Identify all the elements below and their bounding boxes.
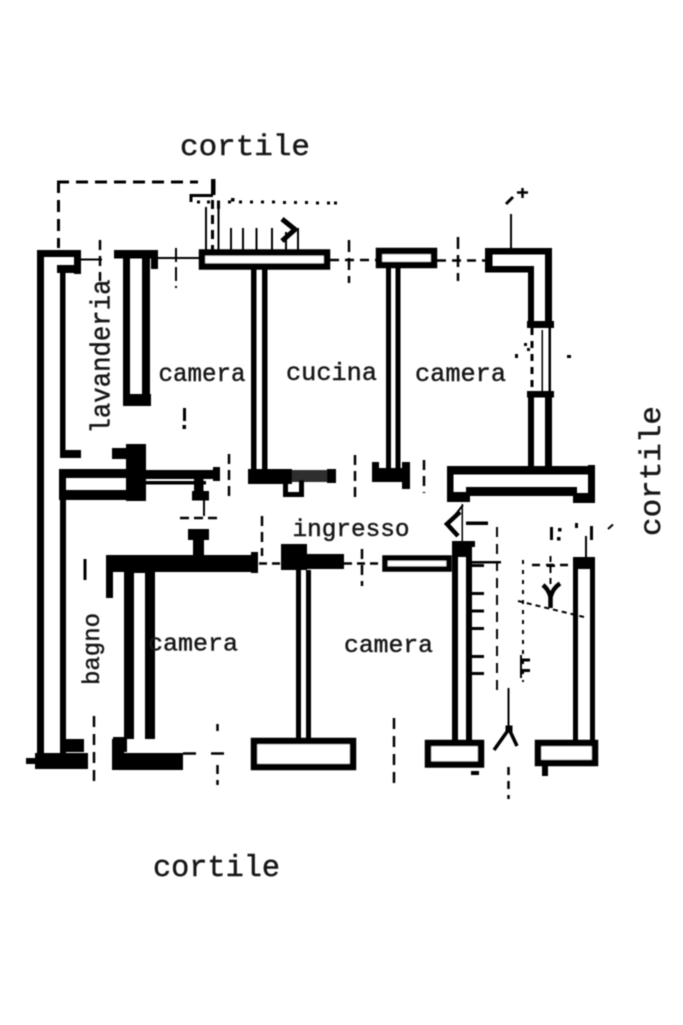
arrow: balcony access chevron xyxy=(282,219,295,241)
wall: left outer wall vertical xyxy=(37,250,44,756)
wall: middle wall right line xyxy=(306,570,311,740)
wall: corridor left cap xyxy=(59,469,66,500)
wall: ingresso north wall thin bottom edge xyxy=(146,481,206,485)
wall: cucina foot right tab down xyxy=(402,480,410,489)
dashed line: boundary vertical to balcony xyxy=(211,200,214,250)
wall: east wing left foot xyxy=(447,492,470,502)
wall: corridor line B xyxy=(59,490,126,500)
wall: stairwell east top cap xyxy=(573,557,595,569)
line: thin jamb line xyxy=(203,497,205,516)
wall: left outer top cap xyxy=(37,250,79,257)
wall: camera2 north bar bottom edge xyxy=(485,266,533,273)
svg-text:cortile: cortile xyxy=(153,851,280,886)
wall: ingresso south-left bar xyxy=(106,555,258,572)
line: axis line down to camera2 bar xyxy=(510,214,512,249)
dots: right of camera2 label xyxy=(524,343,527,346)
dashed line: camera-mid door centerline xyxy=(361,549,364,586)
svg-text:camera: camera xyxy=(344,633,433,660)
wall: camera1 west wall left line xyxy=(123,258,130,395)
wall: camera2 north bar left cap xyxy=(485,248,493,272)
svg-text:lavanderia: lavanderia xyxy=(88,280,119,434)
wall: bar right end cap xyxy=(251,552,258,573)
dash: landing mark xyxy=(590,526,593,540)
jamb: cucina door pocket xyxy=(286,480,302,495)
wall: camera-left west right line xyxy=(145,573,155,739)
wall: camera2 east wall outer upper xyxy=(545,248,552,328)
wall: stairwell east left line xyxy=(573,569,578,740)
wall: camera-mid bottom bar (hollow) xyxy=(254,741,353,767)
wall: east wing right foot xyxy=(573,493,590,503)
window: lavanderia sill line xyxy=(79,259,102,261)
line: landing thin vertical xyxy=(585,536,587,559)
arrow: stairs direction Y xyxy=(543,584,560,609)
line: entrance door centerline xyxy=(462,504,464,546)
wall: camera-left bottom bar xyxy=(112,753,183,770)
svg-text:cortile: cortile xyxy=(636,406,670,536)
wall: entrance corner block xyxy=(452,541,472,557)
wall: east wing left corner vertical xyxy=(447,466,454,501)
wall: corridor line A xyxy=(63,469,126,478)
dotted line: balcony top edge xyxy=(197,201,337,205)
dashed line: corridor door centerline xyxy=(228,454,231,497)
wall: bagno west foot xyxy=(60,739,84,752)
svg-text:bagno: bagno xyxy=(80,613,107,685)
dash-dot: cucina to camera2 opening xyxy=(437,259,485,262)
mark: plus sign top right xyxy=(517,188,528,198)
arrow: entrance arrow tail xyxy=(466,522,488,526)
wall: cucina foot right serif xyxy=(402,462,410,470)
jamb: corridor door stub foot xyxy=(192,491,209,501)
dashed line: cucina window centerline xyxy=(348,240,351,283)
wall: lavanderia partition foot xyxy=(60,450,81,458)
wall: middle wall left line xyxy=(296,570,301,740)
wall: stairwell east bottom bar (hollow) xyxy=(538,743,595,763)
wall: camera-left west junction xyxy=(124,557,155,573)
dashed line: opening centerline x424 xyxy=(423,460,426,493)
wall: ingresso north wall end cap xyxy=(213,467,220,481)
wall: top cap right connector xyxy=(74,250,81,274)
svg-text:camera: camera xyxy=(148,632,238,659)
wall: camera2 east wall inner upper xyxy=(528,266,534,328)
dashed line: lavanderia window centerline xyxy=(99,240,102,281)
wall: camera2 window cap lower xyxy=(527,391,554,398)
wall: stub below east bottom bar xyxy=(542,766,548,776)
wall: ingresso north wing (light) xyxy=(292,470,336,482)
wall: stairwell east right line xyxy=(590,569,595,740)
stairs: tread ticks xyxy=(468,564,484,675)
mark: stray tick below camera label xyxy=(183,408,186,421)
mark: diagonal tick xyxy=(506,197,513,204)
wall: camera1 west wall bottom cap xyxy=(123,394,151,406)
jamb: stub cap xyxy=(188,529,209,540)
jamb: stub above bar xyxy=(193,540,204,556)
wall: stairwell west wall right line xyxy=(466,556,472,740)
wall: middle wall wing right xyxy=(307,554,344,569)
wall: camera2 east wall inner lower xyxy=(528,397,534,468)
dash-dot: slab to cucina opening xyxy=(330,259,376,262)
wall: east wing right stub xyxy=(588,465,595,503)
dashed line: courtyard boundary left xyxy=(57,181,60,248)
wall: cucina north bar (hollow) xyxy=(379,251,434,265)
hatch: balcony railing lines xyxy=(205,204,299,250)
svg-text:cucina: cucina xyxy=(286,359,377,388)
svg-text:ingresso: ingresso xyxy=(293,517,410,544)
wall: cucina east wall foot xyxy=(372,468,410,482)
wall: camera1/cucina wall foot xyxy=(248,469,292,484)
wall: cucina east wall left line xyxy=(386,268,391,469)
tick: solid corner mark of dashed boundary xyxy=(211,179,216,195)
wall: camera2 north bar top edge xyxy=(485,248,552,255)
wall: east wing bottom edge xyxy=(466,487,577,496)
wall: stairwell west top tab xyxy=(466,541,475,547)
wall: balcony slab (hollow) xyxy=(202,253,327,267)
dashed line: cucina door centerline xyxy=(354,455,357,497)
wall: bagno west inner line xyxy=(60,500,66,753)
wall: cucina foot left serif xyxy=(372,462,379,470)
svg-text:cortile: cortile xyxy=(180,131,310,165)
wall: camera1 west wall top cap xyxy=(114,250,158,259)
wall: lavanderia east partition xyxy=(60,271,66,453)
stairs: first tread line xyxy=(470,561,501,564)
wall: ingresso south-right bar (hollow) xyxy=(385,558,449,569)
line: entrance door swing diagonal xyxy=(452,505,463,519)
dashes: landing door line xyxy=(532,564,572,567)
wall: stairwell west wall left line xyxy=(452,556,458,740)
dashed line: stair door centerline below swing xyxy=(507,767,510,799)
wall: central pillar xyxy=(126,444,146,501)
window: camera2 east thin lines xyxy=(531,328,534,393)
wall: camera2 window cap upper xyxy=(527,321,554,328)
dashed line: ingresso-left door centerline xyxy=(261,516,264,556)
wall: camera1/cucina wall left line xyxy=(251,269,257,469)
dashes: door line y563 right xyxy=(344,562,382,565)
wall: top cap step bar xyxy=(57,265,81,273)
wall: camera1 west cap right tab xyxy=(151,258,158,269)
dashed line: courtyard boundary top xyxy=(57,181,198,184)
mark: small F mark xyxy=(550,527,553,540)
window: camera1 sill line xyxy=(158,257,199,259)
wall: camera-left west left line xyxy=(124,573,134,739)
svg-text:camera: camera xyxy=(415,360,506,389)
door: stairwell bottom swing xyxy=(494,729,517,750)
wall: camera2 east wall outer lower xyxy=(545,397,552,468)
wall: east wing top edge xyxy=(447,466,594,475)
arrow: entrance arrow chevron xyxy=(447,512,460,536)
line: stair door centerline above swing xyxy=(508,688,510,727)
dash: tick left of bottom cap xyxy=(26,758,35,764)
wall: camera1/cucina wall right line xyxy=(262,269,268,469)
dashed line: stair direction line above Y xyxy=(550,556,552,584)
wall: left outer bottom cap xyxy=(35,753,88,769)
dashes: door line y563 left xyxy=(259,562,280,565)
dashed line: camera2 window centerline xyxy=(457,237,460,281)
dashed line: stair cut diagonal xyxy=(518,601,584,617)
wall: middle wall top cap xyxy=(281,544,307,570)
line: bagno fixture tick xyxy=(84,559,87,580)
dashed line: stair centerline 2 xyxy=(522,560,524,682)
wall: central pillar tab left xyxy=(112,448,126,459)
dashed line: bagno lower window centerline xyxy=(93,716,96,786)
dash: extra mark right of boundary xyxy=(217,201,220,209)
wall: camera1 west wall right line xyxy=(142,258,150,395)
dashes: passage line y517 xyxy=(180,517,221,520)
wall: camera-left foot tab xyxy=(112,739,124,756)
tick: below west stair bar xyxy=(471,771,479,775)
wall: cucina east wall right line xyxy=(396,268,401,469)
dashed line: camera-mid balcony centerline xyxy=(393,718,396,783)
dot: boundary mark xyxy=(231,198,235,202)
wall: bagno east upper xyxy=(106,555,113,598)
bracket: small step in boundary xyxy=(191,196,213,203)
dashed cross: bottom-left door x217 xyxy=(216,724,219,785)
wall: bagno east bottom stub xyxy=(113,737,127,752)
wall: ingresso north wall top edge xyxy=(146,470,220,479)
mark: small tick near right cortile xyxy=(608,525,613,530)
dashed line: stair centerline 1 xyxy=(496,527,498,692)
wall: stairwell west bottom bar (hollow) xyxy=(428,743,481,765)
dashed line: camera1 window centerline xyxy=(175,248,177,288)
svg-text:camera: camera xyxy=(159,360,246,389)
jamb: corridor door stub xyxy=(194,479,204,494)
mark: section symbol xyxy=(520,655,522,678)
tick: crossing mark on direction line xyxy=(547,565,555,568)
